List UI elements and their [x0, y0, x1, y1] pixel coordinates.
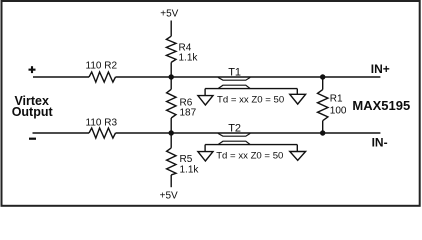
transmission line T1: [205, 77, 297, 88]
T2 right ground stub: [296, 145, 298, 152]
T1 left ground: [198, 96, 213, 105]
T1 right ground stub: [296, 89, 298, 95]
T1 right ground: [290, 94, 306, 104]
resistor R2: [89, 72, 116, 82]
svg-text:187: 187: [180, 108, 197, 119]
minus polarity label: [29, 138, 36, 140]
svg-text:R5: R5: [180, 154, 193, 165]
R4 value labels: [179, 43, 199, 64]
transmission line T2 label: [228, 122, 241, 134]
T2 left ground stub: [204, 145, 206, 152]
node C junction dot: [320, 74, 325, 79]
resistor R6: [167, 77, 176, 133]
IN+ pin label: [371, 62, 390, 76]
bottom horizontal wire (middle+right segment): [116, 132, 381, 134]
node D junction dot: [320, 130, 325, 135]
+5V label (bottom): [160, 190, 178, 201]
IN- pin label: [372, 135, 388, 149]
node B junction dot: [169, 130, 174, 135]
T1 parameter label: [217, 94, 284, 105]
T2 parameter label: [216, 151, 283, 162]
svg-text:110 R2: 110 R2: [86, 61, 118, 72]
T1 left ground stub: [204, 89, 206, 96]
svg-text:Td = xx Z0 = 50: Td = xx Z0 = 50: [216, 151, 283, 162]
resistor R1: [318, 77, 328, 133]
R1 value labels: [330, 94, 347, 117]
R6 value labels: [180, 98, 197, 119]
wire from +5V to R4: [170, 21, 172, 37]
top horizontal wire (middle+right segment): [116, 76, 381, 78]
svg-text:+5V: +5V: [160, 190, 178, 201]
transmission line T2: [205, 133, 297, 144]
svg-text:1.1k: 1.1k: [180, 165, 200, 176]
svg-text:R1: R1: [330, 94, 343, 105]
wire R4 to node A: [170, 62, 172, 77]
svg-text:IN+: IN+: [371, 62, 390, 76]
R3 value label: [86, 117, 118, 128]
MAX5195 part label: [352, 98, 410, 113]
svg-text:T2: T2: [228, 122, 241, 134]
plus polarity label: [29, 66, 36, 73]
transmission line T1 label: [228, 66, 241, 78]
svg-text:110 R3: 110 R3: [86, 117, 118, 128]
R2 value label: [86, 61, 118, 72]
svg-text:Td = xx Z0 = 50: Td = xx Z0 = 50: [217, 94, 284, 105]
svg-text:100: 100: [330, 105, 347, 116]
+5V label (top): [160, 9, 178, 20]
svg-text:1.1k: 1.1k: [179, 52, 199, 63]
svg-text:MAX5195: MAX5195: [352, 98, 410, 113]
svg-text:T1: T1: [228, 66, 241, 78]
bottom horizontal wire (left segment): [33, 132, 90, 134]
svg-text:IN-: IN-: [372, 135, 388, 149]
T2 left ground: [198, 152, 213, 161]
resistor R3: [89, 128, 116, 138]
resistor R5: [167, 133, 176, 187]
resistor R4: [166, 36, 176, 62]
svg-text:+5V: +5V: [160, 9, 178, 20]
svg-text:Output: Output: [12, 105, 54, 119]
node A junction dot: [169, 74, 174, 79]
top horizontal wire (left segment): [33, 76, 89, 78]
Virtex Output label: [12, 94, 54, 119]
T2 right ground: [290, 152, 306, 161]
R5 value labels: [180, 154, 200, 176]
